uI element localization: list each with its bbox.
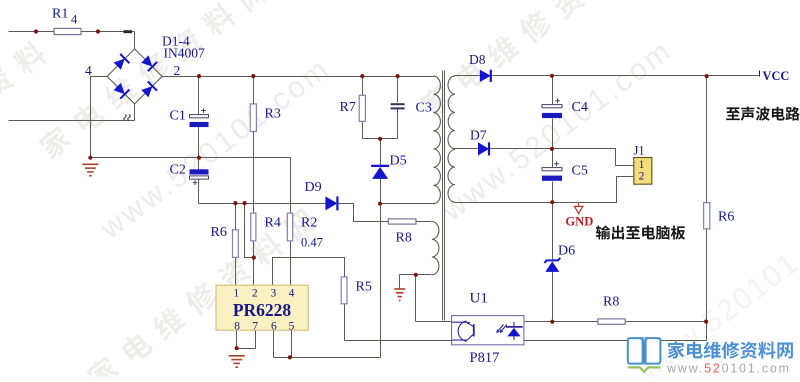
svg-text:1: 1 — [639, 159, 645, 171]
svg-text:D8: D8 — [469, 52, 486, 67]
svg-text:R3: R3 — [265, 107, 281, 122]
svg-text:C1: C1 — [170, 109, 186, 124]
svg-text:2: 2 — [639, 170, 645, 182]
svg-text:R6: R6 — [211, 225, 227, 240]
svg-text:3: 3 — [271, 288, 277, 300]
svg-text:GND: GND — [565, 215, 593, 229]
svg-text:D9: D9 — [305, 180, 322, 195]
svg-text:R6: R6 — [718, 210, 734, 225]
svg-text:R2: R2 — [301, 216, 317, 231]
svg-text:R4: R4 — [265, 216, 281, 231]
svg-text:www.520101.com: www.520101.com — [666, 362, 791, 376]
svg-text:PR6228: PR6228 — [233, 300, 292, 320]
svg-text:8: 8 — [234, 320, 240, 332]
svg-text:4: 4 — [85, 63, 92, 78]
svg-text:R1: R1 — [52, 7, 68, 22]
svg-text:VCC: VCC — [763, 69, 790, 83]
svg-text:7: 7 — [252, 320, 258, 332]
svg-text:D6: D6 — [558, 244, 575, 259]
svg-text:C2: C2 — [170, 163, 186, 178]
svg-text:R5: R5 — [356, 280, 372, 295]
svg-text:U1: U1 — [470, 291, 488, 307]
svg-text:5: 5 — [289, 320, 295, 332]
svg-text:R8: R8 — [396, 231, 412, 246]
svg-text:2: 2 — [174, 63, 181, 78]
svg-text:1: 1 — [233, 288, 239, 300]
svg-text:6: 6 — [271, 320, 277, 332]
svg-text:C4: C4 — [572, 100, 588, 115]
svg-text:P817: P817 — [470, 350, 500, 366]
svg-text:IN4007: IN4007 — [164, 46, 205, 61]
svg-text:R8: R8 — [603, 295, 619, 310]
svg-text:4: 4 — [71, 13, 78, 27]
svg-text:2: 2 — [252, 288, 258, 300]
svg-text:D5: D5 — [390, 154, 407, 169]
svg-text:C5: C5 — [572, 164, 588, 179]
svg-text:4: 4 — [289, 288, 295, 300]
svg-text:C3: C3 — [416, 101, 432, 116]
svg-text:R7: R7 — [340, 100, 356, 115]
svg-text:0.47: 0.47 — [301, 236, 323, 250]
svg-text:J1: J1 — [634, 143, 645, 157]
svg-text:D7: D7 — [470, 128, 487, 143]
